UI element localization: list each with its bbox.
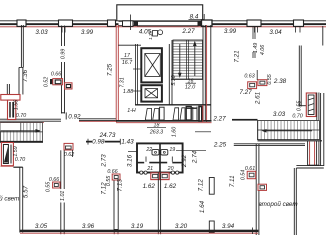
bottom-left outer wall	[19, 167, 21, 232]
svg-text:3.19: 3.19	[131, 223, 144, 230]
red box right of wall	[258, 184, 267, 190]
svg-text:17: 17	[124, 53, 131, 59]
svg-text:3.96: 3.96	[82, 223, 95, 230]
pillar left of bay	[108, 20, 116, 26]
door frame pier	[186, 107, 191, 121]
elevator block left wall	[135, 44, 137, 105]
fin wall 2	[209, 178, 214, 195]
red facade line	[0, 26, 326, 28]
svg-text:второй свет: второй свет	[258, 200, 297, 208]
window block bay small	[123, 21, 134, 27]
svg-text:263.3: 263.3	[149, 130, 163, 136]
svg-text:1.64: 1.64	[199, 200, 206, 213]
svg-text:3.99: 3.99	[81, 29, 94, 36]
dim 1.01	[60, 189, 67, 203]
svg-text:0.98: 0.98	[92, 139, 105, 146]
svg-text:5.30: 5.30	[171, 75, 177, 85]
dim tick x213.8	[203, 14, 205, 21]
left shaft bottom	[1, 143, 13, 166]
svg-text:3.04: 3.04	[269, 29, 282, 36]
wall under elevators	[135, 104, 211, 106]
bottom outer wall	[20, 230, 258, 232]
svg-text:1.62: 1.62	[164, 183, 177, 190]
fin wall 1	[114, 174, 118, 229]
left staircase	[1, 123, 43, 142]
svg-text:3.99: 3.99	[224, 28, 237, 35]
central staircase	[173, 40, 203, 80]
block outline	[137, 143, 183, 172]
right interior wall x300	[298, 46, 300, 107]
svg-text:0.92: 0.92	[68, 114, 81, 121]
svg-text:16.7: 16.7	[122, 60, 133, 66]
svg-text:2.74: 2.74	[192, 150, 199, 164]
red boxes below block	[151, 173, 160, 180]
window block bay long	[138, 21, 199, 26]
svg-text:1.49: 1.49	[253, 43, 259, 53]
top outer wall upper line	[0, 20, 326, 22]
shaft box A2	[65, 83, 73, 89]
shaft box A1	[50, 79, 53, 84]
wall above right stair	[232, 119, 258, 121]
right staircase	[258, 121, 320, 140]
wall ticks through bottom wall	[113, 230, 115, 235]
red box 0.61	[247, 171, 256, 178]
wall under right stair	[258, 140, 323, 142]
lobby wall	[118, 44, 141, 46]
dim tick pair x255	[254, 27, 256, 33]
wall y142 mid-right	[234, 143, 258, 145]
bay pier right	[199, 21, 203, 26]
svg-text:1.35: 1.35	[148, 31, 153, 40]
window block top wall 5	[294, 20, 304, 26]
svg-text:7.27: 7.27	[239, 89, 252, 96]
svg-text:0.54: 0.54	[241, 170, 247, 180]
svg-text:0.99: 0.99	[60, 49, 66, 59]
svg-text:22: 22	[145, 147, 152, 153]
wall 0.92	[61, 112, 65, 114]
column circle	[153, 31, 158, 37]
door leaf 1	[145, 109, 151, 121]
svg-text:1.88: 1.88	[123, 89, 133, 95]
svg-text:1.56: 1.56	[14, 100, 20, 110]
wall below left stair	[0, 141, 43, 143]
thin line y131.8	[195, 131, 211, 133]
svg-text:0.62: 0.62	[64, 152, 74, 158]
svg-text:1-Н: 1-Н	[127, 108, 136, 114]
svg-text:1.59: 1.59	[13, 146, 19, 156]
svg-text:й свет: й свет	[0, 194, 19, 202]
svg-text:7.13: 7.13	[117, 179, 124, 192]
window block top wall 1	[59, 20, 73, 26]
svg-text:2.92: 2.92	[181, 154, 188, 168]
svg-text:2.27: 2.27	[212, 115, 226, 122]
svg-text:3.03: 3.03	[35, 29, 48, 36]
inner vertical	[159, 143, 161, 172]
core bottom wall with doors	[116, 120, 212, 122]
svg-text:0.66: 0.66	[107, 169, 117, 175]
wall y144.7 bottom-right room top	[258, 143, 305, 145]
top outer wall lower thick line	[0, 23, 326, 25]
red box 0.66 bottom-left	[53, 182, 60, 188]
svg-text:0.55: 0.55	[267, 74, 273, 84]
svg-text:7.12: 7.12	[197, 179, 204, 192]
svg-text:0.55: 0.55	[297, 101, 303, 111]
elevator shaft 1	[141, 48, 162, 82]
wall y166 right	[296, 164, 323, 166]
svg-text:2.27: 2.27	[181, 28, 195, 35]
svg-text:7.31: 7.31	[120, 77, 126, 87]
svg-text:7.21: 7.21	[234, 50, 241, 62]
svg-text:7.11: 7.11	[229, 175, 236, 187]
dim tick pair x63	[61, 27, 63, 33]
svg-text:3.03: 3.03	[273, 111, 286, 118]
window block far left	[17, 20, 26, 26]
svg-text:2.61: 2.61	[255, 92, 262, 105]
shaft below right stair	[307, 141, 309, 166]
svg-text:0.70: 0.70	[15, 157, 25, 163]
svg-text:1.43: 1.43	[121, 139, 134, 146]
dim tick x130	[130, 15, 132, 31]
svg-text:0.63: 0.63	[244, 74, 254, 80]
svg-text:2.38: 2.38	[273, 78, 287, 85]
chute shaft right	[306, 93, 316, 117]
inner horizontal	[137, 162, 144, 164]
svg-text:3.16: 3.16	[127, 154, 134, 167]
svg-text:0.55: 0.55	[45, 182, 51, 192]
bay corner pillar	[202, 20, 213, 26]
svg-text:0.66: 0.66	[51, 72, 61, 78]
bay outline	[117, 5, 203, 21]
pier	[160, 107, 165, 120]
elevator shaft 2	[141, 85, 162, 101]
core left red wall	[115, 25, 117, 122]
svg-text:21: 21	[146, 166, 153, 172]
door leaf 4	[180, 108, 185, 120]
red box pair mid-right 2	[256, 70, 258, 80]
svg-text:1.01: 1.01	[60, 191, 66, 201]
svg-text:7.12: 7.12	[101, 182, 108, 195]
svg-text:0.52: 0.52	[44, 77, 50, 87]
svg-text:0.70: 0.70	[16, 113, 26, 119]
red box at fin top	[112, 174, 120, 180]
wall x257 bottom right room	[255, 144, 257, 235]
svg-text:1.60: 1.60	[172, 127, 178, 137]
svg-text:2.73: 2.73	[101, 154, 108, 168]
dim 0.99	[61, 46, 68, 62]
door leaf 2	[153, 109, 159, 121]
dim line x254	[252, 27, 254, 58]
svg-text:20: 20	[167, 166, 174, 172]
red box pair mid-right 1	[248, 82, 257, 89]
svg-text:3.94: 3.94	[222, 223, 235, 230]
wall between elevators and stair	[168, 44, 170, 105]
svg-text:19: 19	[169, 147, 175, 153]
wall x61 bottom	[60, 150, 62, 234]
bay pier	[134, 21, 137, 26]
core right wall	[202, 25, 204, 121]
corridor wall left y120	[0, 118, 61, 120]
corridor wall y119 mid	[79, 118, 116, 120]
svg-text:3.20: 3.20	[175, 223, 188, 230]
svg-text:3.05: 3.05	[35, 223, 48, 230]
svg-text:1.62: 1.62	[143, 183, 156, 190]
dim bar y141.6	[86, 141, 121, 143]
bay window band	[119, 21, 203, 26]
svg-text:2.25: 2.25	[213, 142, 227, 149]
right outer wall upper	[320, 93, 322, 142]
pier wall right of doors	[186, 107, 197, 109]
svg-text:5.57: 5.57	[22, 185, 29, 198]
left shaft top T	[1, 95, 20, 101]
red box 0.62	[64, 143, 73, 150]
svg-text:7.25: 7.25	[107, 63, 114, 76]
svg-text:7.36: 7.36	[22, 69, 29, 82]
interior wall x62	[61, 26, 63, 114]
window block top wall 4	[247, 20, 261, 26]
svg-text:0.70: 0.70	[292, 114, 302, 120]
right edge wall stub	[322, 26, 324, 46]
right lower outer wall	[293, 168, 295, 235]
left outer wall	[21, 25, 23, 67]
svg-text:12.0: 12.0	[185, 84, 195, 90]
central bottom wall	[157, 173, 159, 235]
fixtures	[152, 150, 159, 155]
svg-text:4.06: 4.06	[260, 45, 266, 55]
door leaf 3	[173, 108, 179, 120]
